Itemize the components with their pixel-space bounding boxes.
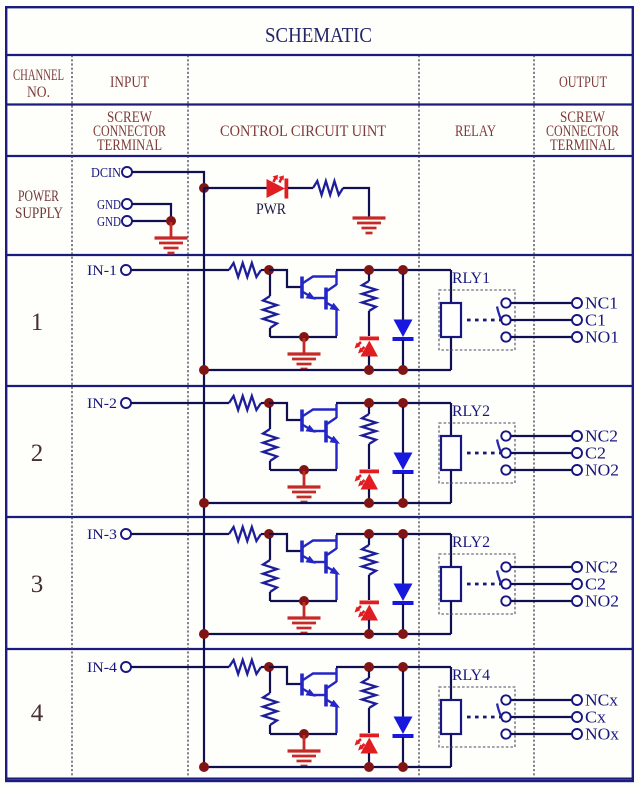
node rail-resistor junction [364, 662, 374, 672]
relay switch blade [497, 307, 504, 325]
relay contact C [501, 315, 510, 324]
node bus-rail junction [199, 498, 209, 508]
output terminal NC1 [572, 294, 618, 313]
relay contact NC [501, 562, 510, 571]
node red LED bottom [364, 762, 374, 772]
wire C contact to terminal [511, 583, 572, 585]
wire IN-2 to resistor [131, 402, 229, 404]
svg-text:INPUT: INPUT [110, 74, 149, 91]
wire collector rail [336, 402, 451, 404]
relay contact NC [501, 298, 510, 307]
relay RLY1 label [452, 270, 490, 287]
wire IN-4 to resistor [131, 666, 229, 668]
wire collector rail [336, 269, 451, 271]
transistor Q1b (darlington second) [313, 271, 340, 336]
svg-text:TERMINAL: TERMINAL [97, 137, 162, 154]
svg-text:RLY2: RLY2 [452, 534, 490, 551]
wire PWR LED to resistor [288, 187, 313, 189]
input terminal IN-4 [87, 660, 131, 676]
relay switch blade [497, 440, 504, 458]
LED D1a (red indicator) [355, 337, 380, 371]
svg-text:GND: GND [97, 215, 121, 230]
LED D1b (blue diode) [393, 274, 414, 370]
wire GND terminals join [132, 204, 171, 221]
wire IN-1 to resistor [131, 269, 229, 271]
terminal DCIN [91, 166, 132, 181]
output terminal C2 [572, 575, 606, 594]
relay body dashed box [439, 423, 515, 483]
svg-text:GND: GND [97, 198, 121, 213]
node DCIN bus junction [199, 183, 209, 193]
node red LED bottom [364, 365, 374, 375]
svg-text:PWR: PWR [256, 201, 287, 218]
relay actuation link [467, 452, 501, 455]
output terminal NO2 [572, 592, 619, 611]
relay contact NC [501, 431, 510, 440]
node red LED bottom [364, 498, 374, 508]
node GND junction [166, 216, 176, 226]
node blue LED bottom [398, 762, 408, 772]
LED D3b (blue diode) [393, 538, 414, 634]
wire bottom return rail [204, 369, 451, 371]
relay contact NO [501, 332, 510, 341]
wire bus to PWR LED [204, 187, 267, 189]
svg-text:TERMINAL: TERMINAL [550, 137, 615, 154]
resistor R3a (input series) [229, 527, 266, 541]
node base-drive junction [264, 398, 274, 408]
LED D4a (red indicator) [355, 734, 380, 768]
relay coil RLY2 [441, 403, 461, 503]
node base-drive junction [264, 662, 274, 672]
relay body dashed box [439, 290, 515, 350]
header OUTPUT [559, 74, 607, 91]
header RELAY [455, 123, 496, 140]
wire emitter/ground bottom [270, 600, 337, 602]
relay switch blade [497, 571, 504, 589]
wire DCIN to bus [132, 172, 204, 188]
relay contact NO [501, 465, 510, 474]
relay contact NC [501, 695, 510, 704]
wire C contact to terminal [511, 319, 572, 321]
wire bottom return rail [204, 766, 451, 768]
node bus-rail junction [199, 365, 209, 375]
resistor (PWR series) [313, 181, 343, 195]
input terminal IN-3 [87, 527, 131, 543]
ground (channel 2) [288, 471, 321, 502]
svg-text:RLY2: RLY2 [452, 403, 490, 420]
relay contact C [501, 712, 510, 721]
ground (input GND) [155, 222, 188, 253]
svg-text:IN-1: IN-1 [87, 263, 117, 279]
svg-text:SUPPLY: SUPPLY [15, 205, 63, 222]
output terminal NO2 [572, 461, 619, 480]
label PWR [256, 201, 287, 218]
LED PWR [267, 175, 289, 199]
wire NO contact to terminal [511, 733, 572, 735]
svg-text:1: 1 [31, 309, 44, 336]
relay actuation link [467, 583, 501, 586]
node emitter-ground junction [299, 465, 309, 475]
svg-text:RELAY: RELAY [455, 123, 496, 140]
row label channel 1 [31, 309, 44, 336]
wire collector rail [336, 666, 451, 668]
input terminal IN-1 [87, 263, 131, 279]
node red LED bottom [364, 629, 374, 639]
transistor Q2a (darlington first) [302, 410, 337, 433]
relay coil RLY4 [441, 667, 461, 767]
resistor R4c (LED series) [362, 671, 376, 733]
node blue LED bottom [398, 498, 408, 508]
wire emitter/ground bottom [270, 336, 337, 338]
wire collector rail [336, 533, 451, 535]
node base-drive junction [264, 265, 274, 275]
svg-text:IN-3: IN-3 [87, 527, 117, 543]
wire NC contact to terminal [511, 566, 572, 568]
relay switch blade [497, 704, 504, 722]
output terminal NOx [572, 725, 620, 744]
row label channel 3 [31, 571, 44, 598]
svg-text:OUTPUT: OUTPUT [559, 74, 607, 91]
node rail-diode junction [398, 265, 408, 275]
transistor Q2b (darlington second) [313, 404, 340, 469]
relay body dashed box [439, 554, 515, 614]
node rail-resistor junction [364, 398, 374, 408]
svg-text:NO2: NO2 [585, 592, 619, 611]
wire NC contact to terminal [511, 699, 572, 701]
svg-text:RLY4: RLY4 [452, 667, 490, 684]
relay RLY2 label [452, 403, 490, 420]
supply bus (vertical) [204, 188, 206, 767]
transistor Q4b (darlington second) [313, 668, 340, 733]
resistor R2c (LED series) [362, 407, 376, 469]
wire emitter/ground bottom [270, 733, 337, 735]
node bus-rail junction [199, 629, 209, 639]
relay coil RLY2 [441, 534, 461, 634]
node blue LED bottom [398, 365, 408, 375]
output terminal Cx [572, 708, 607, 727]
svg-text:NOx: NOx [585, 725, 620, 744]
row label POWER SUPPLY [15, 188, 63, 222]
node blue LED bottom [398, 629, 408, 639]
wire NO contact to terminal [511, 336, 572, 338]
header CHANNEL NO. [13, 67, 64, 101]
relay coil RLY1 [441, 270, 461, 370]
output terminal C1 [572, 311, 606, 330]
relay contact C [501, 448, 510, 457]
resistor R3b (base pulldown) [263, 538, 277, 601]
transistor Q3a (darlington first) [302, 541, 337, 564]
wire NO contact to terminal [511, 600, 572, 602]
node rail-diode junction [398, 398, 408, 408]
wire C contact to terminal [511, 452, 572, 454]
relay actuation link [467, 716, 501, 719]
node emitter-ground junction [299, 596, 309, 606]
ground (channel 4) [288, 735, 321, 766]
svg-text:NO.: NO. [27, 84, 50, 101]
transistor Q1a (darlington first) [302, 277, 337, 300]
wire junction to transistor base [269, 270, 301, 287]
svg-text:SCHEMATIC: SCHEMATIC [265, 23, 372, 47]
resistor R2b (base pulldown) [263, 407, 277, 470]
wire NO contact to terminal [511, 469, 572, 471]
node rail-resistor junction [364, 529, 374, 539]
relay RLY2 label [452, 534, 490, 551]
title SCHEMATIC [265, 23, 372, 47]
transistor Q3b (darlington second) [313, 535, 340, 600]
ground (channel 1) [288, 338, 321, 369]
wire junction to transistor base [269, 403, 301, 420]
row label channel 2 [31, 440, 44, 467]
LED D3a (red indicator) [355, 601, 380, 635]
output terminal NO1 [572, 328, 619, 347]
wire bottom return rail [204, 502, 451, 504]
ground (PWR) [353, 218, 386, 233]
relay contact C [501, 579, 510, 588]
relay contact NO [501, 729, 510, 738]
LED D2a (red indicator) [355, 470, 380, 504]
header SCREW CONNECTOR TERMINAL (output) [546, 109, 619, 154]
LED D4b (blue diode) [393, 671, 414, 767]
row label channel 4 [31, 700, 44, 727]
svg-text:4: 4 [31, 700, 44, 727]
header CONTROL CIRCUIT UINT [220, 123, 386, 140]
header SCREW CONNECTOR TERMINAL (input) [93, 109, 166, 154]
output terminal NC2 [572, 558, 618, 577]
wire NC contact to terminal [511, 435, 572, 437]
node rail-diode junction [398, 529, 408, 539]
resistor R4a (input series) [229, 660, 266, 674]
svg-text:NO2: NO2 [585, 461, 619, 480]
svg-text:2: 2 [31, 440, 44, 467]
node emitter-ground junction [299, 729, 309, 739]
resistor R2a (input series) [229, 396, 266, 410]
node bus-rail junction [199, 762, 209, 772]
relay body dashed box [439, 687, 515, 747]
node rail-diode junction [398, 662, 408, 672]
ground (channel 3) [288, 602, 321, 633]
relay actuation link [467, 319, 501, 322]
relay RLY4 label [452, 667, 490, 684]
terminal GND (upper) [97, 198, 132, 213]
svg-text:CHANNEL: CHANNEL [13, 67, 64, 84]
terminal GND (lower) [97, 215, 132, 230]
resistor R1b (base pulldown) [263, 274, 277, 337]
svg-text:NO1: NO1 [585, 328, 619, 347]
node rail-resistor junction [364, 265, 374, 275]
wire resistor to ground [343, 188, 369, 217]
resistor R1a (input series) [229, 263, 266, 277]
node base-drive junction [264, 529, 274, 539]
relay contact NO [501, 596, 510, 605]
wire IN-3 to resistor [131, 533, 229, 535]
LED D2b (blue diode) [393, 407, 414, 503]
output terminal NCx [572, 691, 619, 710]
node emitter-ground junction [299, 332, 309, 342]
svg-text:RLY1: RLY1 [452, 270, 490, 287]
resistor R4b (base pulldown) [263, 671, 277, 734]
transistor Q4a (darlington first) [302, 674, 337, 697]
svg-text:DCIN: DCIN [91, 166, 121, 181]
resistor R1c (LED series) [362, 274, 376, 336]
wire C contact to terminal [511, 716, 572, 718]
svg-text:POWER: POWER [18, 188, 60, 205]
wire junction to transistor base [269, 534, 301, 551]
wire emitter/ground bottom [270, 469, 337, 471]
svg-text:3: 3 [31, 571, 44, 598]
wire junction to transistor base [269, 667, 301, 684]
header INPUT [110, 74, 149, 91]
svg-text:CONTROL CIRCUIT UINT: CONTROL CIRCUIT UINT [220, 123, 386, 140]
input terminal IN-2 [87, 396, 131, 412]
resistor R3c (LED series) [362, 538, 376, 600]
output terminal NC2 [572, 427, 618, 446]
wire NC contact to terminal [511, 302, 572, 304]
wire bottom return rail [204, 633, 451, 635]
output terminal C2 [572, 444, 606, 463]
svg-text:IN-4: IN-4 [87, 660, 118, 676]
svg-text:IN-2: IN-2 [87, 396, 117, 412]
